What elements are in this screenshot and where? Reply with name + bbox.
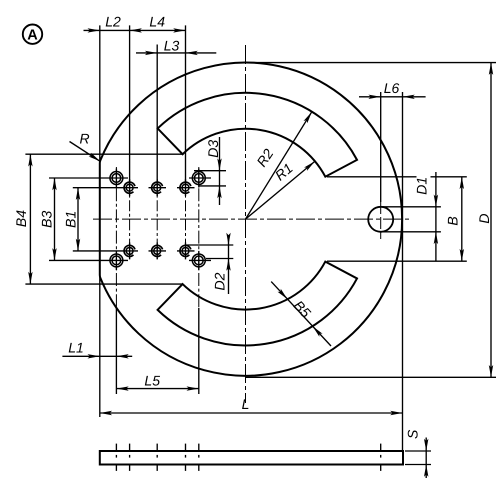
svg-text:A: A — [27, 28, 38, 44]
svg-text:L3: L3 — [164, 37, 180, 53]
svg-text:D: D — [476, 213, 492, 223]
svg-text:L1: L1 — [68, 340, 84, 356]
svg-text:B4: B4 — [13, 210, 29, 227]
svg-text:R: R — [79, 130, 89, 146]
svg-text:D2: D2 — [212, 272, 228, 290]
svg-text:D3: D3 — [205, 140, 221, 158]
svg-text:B: B — [445, 216, 461, 225]
svg-text:L4: L4 — [149, 14, 165, 30]
svg-text:S: S — [405, 429, 421, 439]
svg-text:L6: L6 — [384, 80, 400, 96]
svg-text:D1: D1 — [414, 177, 430, 195]
svg-text:B1: B1 — [63, 211, 79, 228]
svg-text:L2: L2 — [105, 14, 121, 30]
svg-text:L: L — [242, 396, 250, 412]
svg-text:B3: B3 — [39, 211, 55, 228]
svg-text:L5: L5 — [144, 372, 160, 388]
